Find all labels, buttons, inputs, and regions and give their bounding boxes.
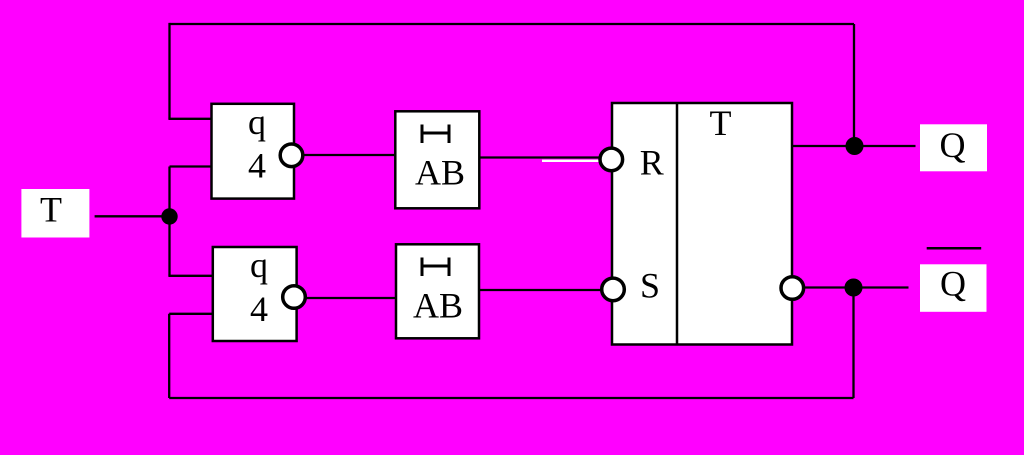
- wire bottom feedback right vertical: [852, 288, 854, 399]
- wire DD2 output to DD4: [294, 297, 397, 299]
- label notQ output: [920, 248, 987, 311]
- wire DD4 output to S input: [479, 289, 602, 291]
- svg-text:T: T: [710, 103, 732, 143]
- wire top feedback horizontal: [170, 23, 855, 25]
- wire bottom feedback horizontal: [169, 397, 853, 399]
- svg-text:4: 4: [248, 146, 266, 186]
- latch DD5 RS flip-flop (T): [612, 103, 792, 345]
- wire Q output: [792, 145, 916, 147]
- inversion bubble notQ output: [781, 277, 804, 300]
- wire vertical through node A: [168, 167, 170, 276]
- wire into DD1 upper input: [168, 118, 213, 120]
- inversion bubble S input: [602, 278, 625, 301]
- svg-text:R: R: [640, 143, 664, 183]
- pulse shaper DD4 (AB) lower: [396, 244, 479, 338]
- svg-text:Q: Q: [940, 264, 966, 304]
- svg-text:AB: AB: [415, 152, 465, 192]
- gate DD1 NAND (q 4) upper: [212, 102, 295, 199]
- wire top feedback left vertical: [168, 23, 170, 119]
- gate DD2 NAND (q 4) lower: [213, 245, 297, 341]
- node A junction dot: [161, 208, 177, 224]
- label Q output: [920, 124, 987, 171]
- node notQ junction dot: [845, 279, 863, 297]
- wire into DD2 upper input: [168, 275, 214, 277]
- svg-text:q: q: [248, 102, 266, 142]
- wire from T input box: [95, 215, 170, 217]
- svg-text:T: T: [40, 189, 62, 229]
- svg-text:4: 4: [250, 289, 268, 329]
- wire from T node up to DD1 lower input: [170, 165, 214, 167]
- wire DD2 lower input: [169, 313, 214, 315]
- wire DD3 output to R input: [479, 156, 600, 158]
- wire top feedback right vertical: [853, 24, 855, 146]
- inversion bubble DD2 output: [283, 286, 306, 309]
- wire white overpaint segment near R: [542, 160, 601, 162]
- inversion bubble R input: [600, 148, 623, 171]
- wire DD1 output to DD3: [292, 154, 396, 156]
- svg-text:Q: Q: [940, 125, 966, 165]
- wire bottom feedback left vertical: [168, 314, 170, 398]
- svg-text:q: q: [250, 245, 268, 285]
- label T input: [21, 189, 89, 238]
- inversion bubble DD1 output: [280, 144, 303, 167]
- svg-text:S: S: [640, 265, 660, 305]
- wire notQ output: [803, 286, 909, 288]
- pulse shaper DD3 (AB) upper: [395, 111, 479, 208]
- node Q junction dot: [846, 137, 864, 155]
- svg-text:AB: AB: [413, 285, 463, 325]
